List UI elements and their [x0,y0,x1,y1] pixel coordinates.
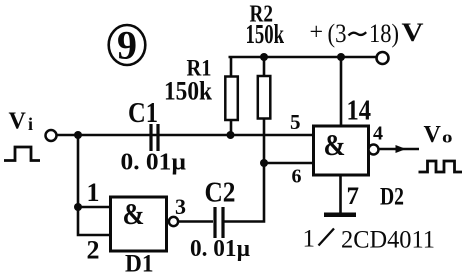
wire: pin 7 [339,175,342,213]
junction node A [74,131,82,139]
ground [324,213,356,218]
svg-text:V: V [9,109,27,135]
svg-text:7: 7 [347,183,360,210]
svg-text:&: & [123,196,145,231]
wire: node A down to D1 inputs [77,135,80,207]
junction: pin 14 branch on rail [337,53,345,61]
svg-text:1: 1 [303,226,316,253]
NAND gate D2 [314,126,369,175]
svg-text:V: V [424,122,442,148]
svg-text:C1: C1 [128,97,158,129]
svg-text:o: o [442,128,453,147]
svg-text:18): 18) [369,19,399,48]
svg-text:150k: 150k [164,77,212,106]
capacitor C2 [215,207,223,238]
junction: R2 top on rail [260,53,268,61]
svg-text:0. 01µ: 0. 01µ [190,236,250,262]
junction node B [260,159,268,167]
wire: pin 14 [340,57,343,126]
svg-text:0. 01µ: 0. 01µ [121,150,187,176]
NAND gate D1 [111,196,167,251]
output label Vo [424,122,453,148]
junction at D1 input node [74,203,82,211]
input terminal Vi [46,130,57,141]
svg-text:C2: C2 [205,177,236,209]
svg-text:5: 5 [290,110,301,134]
wire: C2 to node B [225,163,265,222]
svg-text:1: 1 [87,178,100,207]
svg-text:+: + [310,20,324,46]
input label Vi [9,109,34,135]
svg-text:2CD4011: 2CD4011 [341,227,435,254]
svg-text:D2: D2 [380,184,404,211]
wire: pin 3 to C2 [178,220,213,223]
wire: D1 pin 1 [78,206,110,209]
wire: node B to D2 pin 6 [264,162,313,165]
svg-text:9: 9 [117,23,137,68]
pin 4 inversion bubble [369,145,379,155]
svg-text:3: 3 [175,194,186,219]
junction: R1 bottom on node A wire [227,131,235,139]
capacitor C1 [151,124,158,151]
figure number 9 (circled) [109,23,146,68]
svg-text:V: V [402,18,424,47]
power rail wire [229,56,378,59]
svg-text:D1: D1 [125,251,154,278]
input pulse waveform [4,147,40,161]
label 1/2CD4011 [303,226,436,254]
svg-text:i: i [28,114,33,134]
wire: output pin 4 with arrow [379,145,419,153]
resistor R2 [258,57,271,119]
wire: Vi terminal to D2 pin 5 [57,134,314,137]
wire: D1 pin 2 jog [78,207,110,235]
svg-text:4: 4 [373,123,383,145]
svg-text:2: 2 [87,236,100,265]
svg-text:6: 6 [292,166,302,188]
output square wave [419,161,463,172]
power terminal [377,52,389,64]
svg-text:&: & [324,127,346,162]
svg-text:(3: (3 [328,19,347,48]
label +(3~18)V [310,18,424,48]
wire: R2 bottom to node B (crosses node A wire) [263,119,266,163]
svg-text:150k: 150k [246,19,285,49]
pin 3 inversion bubble [169,217,178,226]
resistor R1 [225,57,238,135]
svg-text:14: 14 [347,96,372,127]
